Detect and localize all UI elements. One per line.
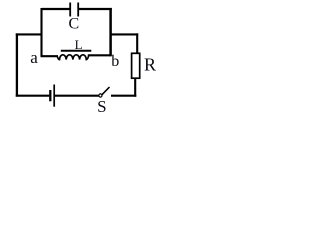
battery negative plate (short thick) xyxy=(49,90,51,101)
svg-text:S: S xyxy=(97,97,106,116)
wire inductor branch right segment xyxy=(88,54,111,56)
wire left connector bus (outer left wire to node a) xyxy=(16,33,43,35)
battery positive plate (long thin) xyxy=(53,85,55,107)
inductor core bar xyxy=(61,50,92,52)
wire top-right segment (capacitor right plate to top-right corner) xyxy=(78,8,112,10)
wire top-left segment (node a vertical to capacitor left plate) xyxy=(42,8,71,10)
svg-text:L: L xyxy=(75,37,83,52)
capacitor C1 left plate xyxy=(69,3,71,17)
svg-text:C: C xyxy=(68,16,79,33)
capacitor C1 right plate xyxy=(77,3,79,17)
switch S pivot circle xyxy=(99,94,102,97)
wire stub from resistor R down to bottom wire xyxy=(134,78,136,97)
wire outer left vertical xyxy=(16,33,18,96)
wire bottom-middle segment (battery to switch) xyxy=(55,95,99,97)
wire node b vertical (top wire corner down to inductor branch) xyxy=(109,8,112,56)
wire bottom-right segment (switch to bottom-right corner) xyxy=(111,95,136,97)
wire stub from bus down to resistor R xyxy=(136,33,138,53)
wire right bus (node b to resistor stub) xyxy=(110,33,138,35)
wire left vertical of LC loop (node a up to capacitor branch) xyxy=(40,8,42,56)
resistor R box xyxy=(132,53,140,78)
wire bottom-left segment (corner to battery) xyxy=(16,95,50,97)
inductor L coil xyxy=(57,55,89,60)
switch S lever xyxy=(102,87,109,95)
svg-text:R: R xyxy=(144,55,156,75)
svg-text:b: b xyxy=(111,53,119,70)
svg-text:a: a xyxy=(30,48,38,67)
wire inductor branch left segment xyxy=(41,55,59,57)
